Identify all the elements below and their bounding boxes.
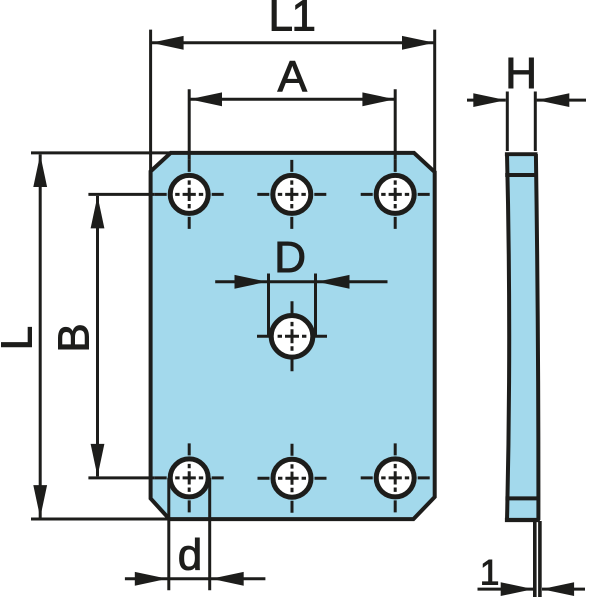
dimension line d: [125, 577, 266, 580]
centerline TR vertical extension to A: [394, 89, 397, 160]
extension line L1 right: [433, 30, 436, 172]
side view bottom edge: [505, 518, 540, 522]
dimension line B: [96, 196, 99, 477]
dimension line A: [189, 98, 395, 101]
centerline TL horizontal extension to B: [88, 193, 154, 196]
svg-text:d: d: [178, 531, 202, 580]
centerline BL horizontal extension to B: [88, 476, 154, 479]
hole TL: [170, 175, 208, 213]
extension line L bottom: [31, 518, 169, 521]
extension line D right tangent: [314, 274, 317, 337]
extension line d left tangent: [167, 478, 170, 590]
centerline TL vertical: [188, 160, 191, 229]
dimension line H left: [467, 99, 506, 102]
arrow D right inward: [317, 275, 350, 289]
centerline center hole vertical: [291, 301, 294, 371]
centerline BR horizontal: [361, 476, 430, 479]
svg-text:L: L: [0, 326, 42, 350]
side view left edge: [507, 154, 509, 520]
extension line D left tangent: [267, 274, 270, 337]
arrow L bottom: [33, 485, 47, 517]
centerline BL horizontal: [155, 476, 224, 479]
extension line H left: [506, 92, 509, 152]
hole center: [271, 316, 313, 358]
arrow B top: [91, 196, 105, 229]
svg-text:A: A: [278, 53, 308, 102]
plate front view: [151, 153, 435, 519]
hole BL: [170, 459, 208, 497]
arrow B bottom: [91, 444, 105, 477]
extension line 1 right: [538, 521, 542, 597]
svg-text:B: B: [50, 323, 99, 352]
side view lower divider: [505, 496, 538, 500]
extension line L1 left: [149, 30, 152, 172]
arrow H left inward: [473, 93, 506, 107]
extension line L top: [31, 151, 171, 154]
hole BR: [376, 459, 414, 497]
arrow d left inward: [135, 572, 168, 586]
arrow L top: [33, 155, 47, 188]
svg-text:D: D: [274, 233, 306, 282]
centerline BL vertical: [188, 443, 191, 512]
centerline center hole horizontal: [257, 335, 327, 338]
arrow H right inward: [537, 93, 570, 107]
centerline TM vertical: [290, 160, 293, 229]
dimension line 1 right: [542, 588, 585, 591]
svg-text:L1: L1: [269, 0, 315, 41]
arrow L1 left: [151, 36, 184, 50]
svg-text:H: H: [505, 49, 537, 98]
side view fill: [507, 154, 538, 520]
centerline TR horizontal: [361, 193, 430, 196]
extension line 1 left: [533, 521, 537, 597]
arrow 1 right inward: [542, 582, 575, 596]
extension line H right: [534, 92, 537, 152]
side view upper divider: [505, 173, 536, 177]
centerline TR vertical: [394, 160, 397, 229]
arrow d right inward: [211, 572, 244, 586]
centerline TL vertical extension to A: [188, 89, 191, 160]
side view right edge: [536, 154, 539, 520]
svg-text:1: 1: [480, 553, 499, 592]
arrow A right: [362, 92, 395, 106]
arrow 1 left inward: [501, 582, 534, 596]
centerline BM vertical: [291, 444, 294, 513]
hole BM: [273, 459, 311, 497]
arrow A left: [190, 92, 223, 106]
hole TM: [273, 175, 311, 213]
centerline TL horizontal: [155, 193, 224, 196]
dimension line L: [39, 155, 42, 518]
centerline BR vertical: [394, 443, 397, 512]
dimension line H right: [537, 99, 586, 102]
dimension line L1: [151, 41, 435, 44]
dimension line D: [215, 280, 387, 283]
dimension line 1 left: [478, 588, 534, 591]
hole TR: [376, 175, 414, 213]
centerline BM horizontal: [258, 477, 327, 480]
arrow L1 right: [402, 36, 435, 50]
extension line d right tangent: [208, 478, 211, 590]
arrow D left inward: [235, 275, 268, 289]
side view top edge: [505, 152, 538, 156]
centerline TM horizontal: [257, 193, 326, 196]
